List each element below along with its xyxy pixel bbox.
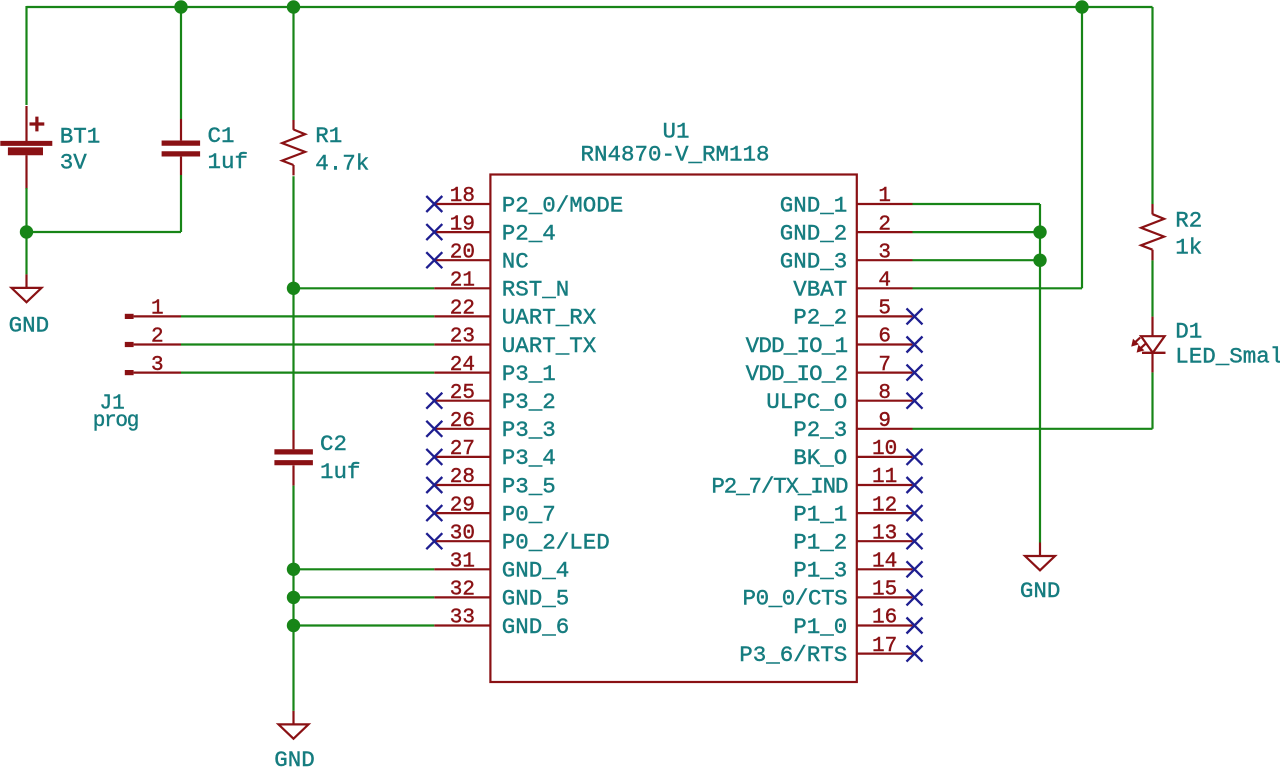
wire: GND_5 horizontal	[294, 596, 435, 598]
U1 pin 7 line	[857, 372, 913, 374]
no-connect X pin 13	[907, 533, 923, 549]
svg-text:10: 10	[872, 438, 897, 461]
junction: GND_3 bus	[1033, 254, 1046, 267]
no-connect X pin 7	[907, 365, 923, 381]
svg-text:GND: GND	[1020, 578, 1061, 604]
no-connect X pin 11	[907, 477, 923, 493]
no-connect X pin 12	[907, 505, 923, 521]
svg-text:LED_Small: LED_Small	[1175, 344, 1280, 370]
J1 pin 1	[125, 314, 181, 319]
no-connect X pin 29	[426, 505, 442, 521]
U1 pin 1 line	[857, 203, 913, 205]
wire: right gnd bus vertical	[1039, 204, 1041, 543]
svg-text:4: 4	[878, 270, 891, 293]
svg-text:GND: GND	[274, 747, 315, 767]
svg-text:14: 14	[872, 551, 897, 574]
svg-text:P1_1: P1_1	[793, 501, 847, 527]
svg-text:P2_4: P2_4	[502, 220, 556, 246]
svg-text:P2_0/MODE: P2_0/MODE	[502, 192, 624, 218]
svg-text:P3_5: P3_5	[502, 473, 556, 499]
svg-text:P3_4: P3_4	[502, 445, 556, 471]
junction: rail at R1	[287, 0, 300, 13]
svg-text:GND_4: GND_4	[502, 558, 570, 584]
U1 pin 11 line	[857, 484, 913, 486]
U1 pin 30 line	[434, 540, 490, 542]
junction: rail at C1	[174, 0, 187, 13]
capacitor C2	[274, 430, 313, 486]
svg-text:VBAT: VBAT	[793, 277, 847, 303]
U1 pin 14 line	[857, 568, 913, 570]
U1 pin 17 line	[857, 652, 913, 654]
wire: battery bottom to junction	[25, 188, 27, 232]
no-connect X pin 18	[426, 196, 442, 212]
svg-text:GND: GND	[9, 312, 50, 338]
svg-text:8: 8	[878, 382, 891, 405]
svg-text:VDD_IO_1: VDD_IO_1	[746, 333, 848, 359]
resistor R1 zigzag	[282, 130, 305, 166]
U1 pin 25 line	[434, 400, 490, 402]
svg-text:P0_0/CTS: P0_0/CTS	[742, 586, 847, 612]
svg-text:6: 6	[878, 326, 891, 349]
svg-text:1: 1	[878, 185, 891, 208]
wire: bottom link battery to C1	[27, 231, 182, 233]
LED D1	[1132, 317, 1166, 373]
no-connect X pin 27	[426, 449, 442, 465]
svg-text:NC: NC	[502, 249, 529, 275]
ground symbol under battery	[12, 274, 42, 302]
svg-text:C2: C2	[320, 431, 347, 457]
svg-text:P0_2/LED: P0_2/LED	[502, 530, 610, 556]
svg-text:GND_2: GND_2	[780, 220, 848, 246]
svg-text:P1_3: P1_3	[793, 558, 847, 584]
wire: RST_N horizontal	[294, 287, 435, 289]
no-connect X pin 15	[907, 589, 923, 605]
wire: C1 drop from rail	[180, 7, 182, 119]
ground symbol under C2	[279, 711, 309, 739]
wire: J1 pin 2 to U1	[181, 343, 434, 345]
svg-text:2: 2	[878, 213, 891, 236]
svg-text:22: 22	[450, 298, 475, 321]
junction: GND_2 bus	[1033, 225, 1046, 238]
svg-text:27: 27	[450, 438, 475, 461]
wire: C2 bottom down to gnd	[292, 486, 294, 711]
wire: VBAT horizontal	[913, 287, 1083, 289]
svg-text:4.7k: 4.7k	[315, 151, 369, 177]
U1 pin 21 line	[434, 287, 490, 289]
svg-text:11: 11	[872, 466, 897, 489]
wire: C1 bottom riser	[180, 175, 182, 232]
svg-text:1uf: 1uf	[320, 459, 361, 485]
wire: VBAT drop from rail	[1081, 7, 1083, 288]
U1 pin 6 line	[857, 343, 913, 345]
svg-text:1k: 1k	[1175, 235, 1202, 261]
U1 pin 16 line	[857, 624, 913, 626]
svg-text:3: 3	[878, 241, 891, 264]
svg-text:32: 32	[450, 579, 475, 602]
svg-text:RST_N: RST_N	[502, 277, 570, 303]
U1 pin 29 line	[434, 512, 490, 514]
svg-text:25: 25	[450, 382, 475, 405]
wire: GND_6 horizontal	[294, 624, 435, 626]
svg-text:P2_3: P2_3	[793, 417, 847, 443]
U1 pin 18 line	[434, 203, 490, 205]
svg-text:19: 19	[450, 213, 475, 236]
U1 pin 22 line	[434, 315, 490, 317]
svg-text:P3_3: P3_3	[502, 417, 556, 443]
J1 pin 3	[125, 370, 181, 375]
svg-text:R1: R1	[315, 123, 342, 149]
svg-text:GND_1: GND_1	[780, 192, 848, 218]
no-connect X pin 19	[426, 224, 442, 240]
U1 pin 19 line	[434, 231, 490, 233]
svg-text:P3_2: P3_2	[502, 389, 556, 415]
wire: J1 pin 3 to U1	[181, 372, 434, 374]
no-connect X pin 28	[426, 477, 442, 493]
svg-text:18: 18	[450, 185, 475, 208]
battery BT1	[0, 106, 52, 189]
wire: battery gnd stub	[25, 232, 27, 274]
wire: battery drop from rail	[25, 6, 27, 105]
svg-text:23: 23	[450, 326, 475, 349]
svg-text:1uf: 1uf	[208, 149, 249, 175]
svg-text:28: 28	[450, 466, 475, 489]
U1 pin 20 line	[434, 259, 490, 261]
svg-text:GND_6: GND_6	[502, 614, 570, 640]
U1 pin 4 line	[857, 287, 913, 289]
svg-text:21: 21	[450, 270, 475, 293]
svg-text:P0_7: P0_7	[502, 501, 556, 527]
U1 pin 13 line	[857, 540, 913, 542]
J1 pin 2	[125, 342, 181, 347]
svg-text:15: 15	[872, 579, 897, 602]
svg-text:RN4870-V_RM118: RN4870-V_RM118	[580, 141, 769, 167]
svg-text:P2_7/TX_IND: P2_7/TX_IND	[711, 473, 848, 499]
no-connect X pin 10	[907, 449, 923, 465]
junction: R1 / RST_N	[287, 282, 300, 295]
U1 pin 33 line	[434, 624, 490, 626]
svg-text:33: 33	[450, 607, 475, 630]
U1 pin 9 line	[857, 428, 913, 430]
U1 pin 32 line	[434, 596, 490, 598]
U1 pin 15 line	[857, 596, 913, 598]
svg-text:GND_3: GND_3	[780, 249, 848, 275]
U1 pin 12 line	[857, 512, 913, 514]
no-connect X pin 16	[907, 618, 923, 634]
svg-text:13: 13	[872, 522, 897, 545]
svg-text:BT1: BT1	[60, 123, 101, 149]
junction: GND_6	[287, 619, 300, 632]
svg-text:D1: D1	[1175, 318, 1202, 344]
no-connect X pin 26	[426, 421, 442, 437]
wire: J1 pin 1 to U1	[181, 315, 434, 317]
svg-text:R2: R2	[1175, 208, 1202, 234]
svg-text:5: 5	[878, 298, 891, 321]
svg-text:1: 1	[151, 298, 164, 321]
svg-text:3V: 3V	[60, 150, 88, 176]
U1 pin 5 line	[857, 315, 913, 317]
wire: GND_3	[913, 259, 1041, 261]
U1 pin 28 line	[434, 484, 490, 486]
svg-text:UART_TX: UART_TX	[502, 333, 597, 359]
wire: R2 drop from rail	[1151, 7, 1153, 204]
svg-text:2: 2	[151, 326, 164, 349]
wire: LED column riser	[1151, 372, 1153, 428]
no-connect X pin 20	[426, 252, 442, 268]
svg-text:ULPC_O: ULPC_O	[766, 389, 847, 415]
U1 pin 2 line	[857, 231, 913, 233]
svg-text:P1_0: P1_0	[793, 614, 847, 640]
U1 pin 24 line	[434, 372, 490, 374]
svg-text:7: 7	[878, 354, 891, 377]
U1 pin 10 line	[857, 456, 913, 458]
no-connect X pin 30	[426, 533, 442, 549]
svg-text:P3_1: P3_1	[502, 361, 556, 387]
svg-text:UART_RX: UART_RX	[502, 305, 597, 331]
svg-text:29: 29	[450, 494, 475, 517]
wire: top power rail	[27, 6, 1153, 8]
U1 pin 31 line	[434, 568, 490, 570]
svg-text:VDD_IO_2: VDD_IO_2	[746, 361, 848, 387]
svg-text:BK_O: BK_O	[793, 445, 847, 471]
junction: GND_4	[287, 563, 300, 576]
svg-text:16: 16	[872, 607, 897, 630]
svg-text:C1: C1	[208, 123, 235, 149]
wire: P2_3 to LED column	[913, 428, 1153, 430]
no-connect X pin 8	[907, 393, 923, 409]
svg-text:24: 24	[450, 354, 475, 377]
svg-text:P2_2: P2_2	[793, 305, 847, 331]
U1 pin 3 line	[857, 259, 913, 261]
wire: R2 to LED	[1151, 260, 1153, 316]
junction: rail at VBAT branch	[1075, 0, 1088, 13]
no-connect X pin 17	[907, 646, 923, 662]
op-amp U1 body (IC RN4870)	[490, 175, 856, 683]
U1 pin 8 line	[857, 400, 913, 402]
svg-text:12: 12	[872, 494, 897, 517]
svg-text:30: 30	[450, 522, 475, 545]
no-connect X pin 6	[907, 337, 923, 353]
svg-text:prog: prog	[93, 410, 138, 433]
svg-text:17: 17	[872, 635, 897, 658]
svg-text:9: 9	[878, 410, 891, 433]
svg-text:20: 20	[450, 241, 475, 264]
svg-text:GND_5: GND_5	[502, 586, 570, 612]
wire: GND_4 horizontal	[294, 568, 435, 570]
resistor R2 zigzag	[1141, 214, 1164, 250]
svg-text:31: 31	[450, 551, 475, 574]
U1 pin 23 line	[434, 343, 490, 345]
no-connect X pin 25	[426, 393, 442, 409]
svg-text:P1_2: P1_2	[793, 530, 847, 556]
wire: R1 bottom to RST junction and down to C2	[292, 176, 294, 430]
resistor R1	[282, 120, 305, 175]
svg-text:3: 3	[151, 354, 164, 377]
no-connect X pin 5	[907, 308, 923, 324]
capacitor C1	[162, 119, 201, 175]
junction: battery / C1 bottom	[20, 225, 33, 238]
ground symbol right	[1025, 543, 1055, 571]
wire: GND_1 to right bus	[913, 203, 1041, 205]
wire: R1 drop from rail	[292, 7, 294, 120]
wire: GND_2	[913, 231, 1041, 233]
U1 pin 26 line	[434, 428, 490, 430]
U1 pin 27 line	[434, 456, 490, 458]
svg-text:P3_6/RTS: P3_6/RTS	[739, 642, 847, 668]
svg-text:26: 26	[450, 410, 475, 433]
no-connect X pin 14	[907, 561, 923, 577]
junction: GND_5	[287, 591, 300, 604]
resistor R2	[1141, 204, 1164, 260]
